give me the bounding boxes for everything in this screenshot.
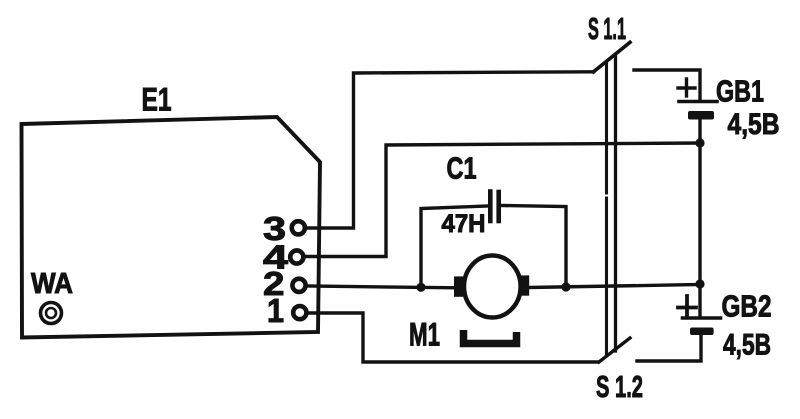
pin 4 terminal: [290, 250, 303, 263]
junction node B (C1 right / motor wire): [561, 282, 570, 291]
svg-text:4,5B: 4,5B: [723, 329, 771, 362]
pin 2 terminal: [292, 279, 305, 292]
svg-text:S 1.1: S 1.1: [588, 11, 626, 46]
pin 1 terminal: [293, 306, 306, 319]
svg-text:E1: E1: [142, 82, 172, 118]
wire pin1 to S1.2: [307, 313, 598, 362]
junction node C (rail / pin4 wire): [695, 138, 704, 147]
mechanical link bar left line: [605, 64, 608, 193]
svg-text:4,5B: 4,5B: [728, 108, 780, 141]
svg-text:C1: C1: [447, 151, 477, 186]
wire battery rail: [698, 143, 701, 317]
battery GB2 plus sign: [678, 306, 696, 310]
svg-text:WA: WA: [31, 268, 73, 300]
junction node D (rail / motor wire): [695, 279, 704, 288]
mechanical link bar right line: [614, 55, 617, 352]
svg-text:1: 1: [267, 292, 284, 329]
wire pin2 to motor M1: [306, 286, 456, 288]
wire C1 right leg: [501, 206, 566, 288]
motor M1: [464, 256, 521, 318]
svg-text:47H: 47H: [442, 210, 486, 238]
battery GB1 plates: [679, 100, 717, 104]
wire pin4 to GB1 minus: [303, 143, 700, 257]
wire pin3 to S1.1: [305, 72, 594, 228]
pin 3 terminal: [292, 221, 305, 234]
switch S1.2 blade: [599, 338, 630, 362]
wire motor to battery rail: [529, 285, 700, 288]
wire GB1 minus to junction C: [698, 119, 701, 143]
switch S1.1 blade: [594, 42, 631, 72]
battery GB1 plus sign: [678, 86, 695, 89]
junction node A (C1 left / pin2 wire): [416, 283, 425, 292]
block E1 outline: [22, 117, 321, 338]
svg-text:S 1.2: S 1.2: [596, 369, 643, 404]
svg-text:M1: M1: [409, 317, 440, 353]
wire S1.1 to GB1 plus: [634, 70, 700, 99]
wire C1 left leg: [421, 206, 487, 287]
battery GB2 plates: [683, 316, 721, 320]
wire GB2 minus to S1.2: [637, 335, 701, 361]
capacitor C1 plates: [488, 192, 493, 222]
socket symbol WA: [41, 303, 62, 324]
motor mount bracket: [464, 330, 517, 344]
svg-text:GB2: GB2: [722, 289, 772, 324]
svg-text:GB1: GB1: [716, 74, 764, 109]
